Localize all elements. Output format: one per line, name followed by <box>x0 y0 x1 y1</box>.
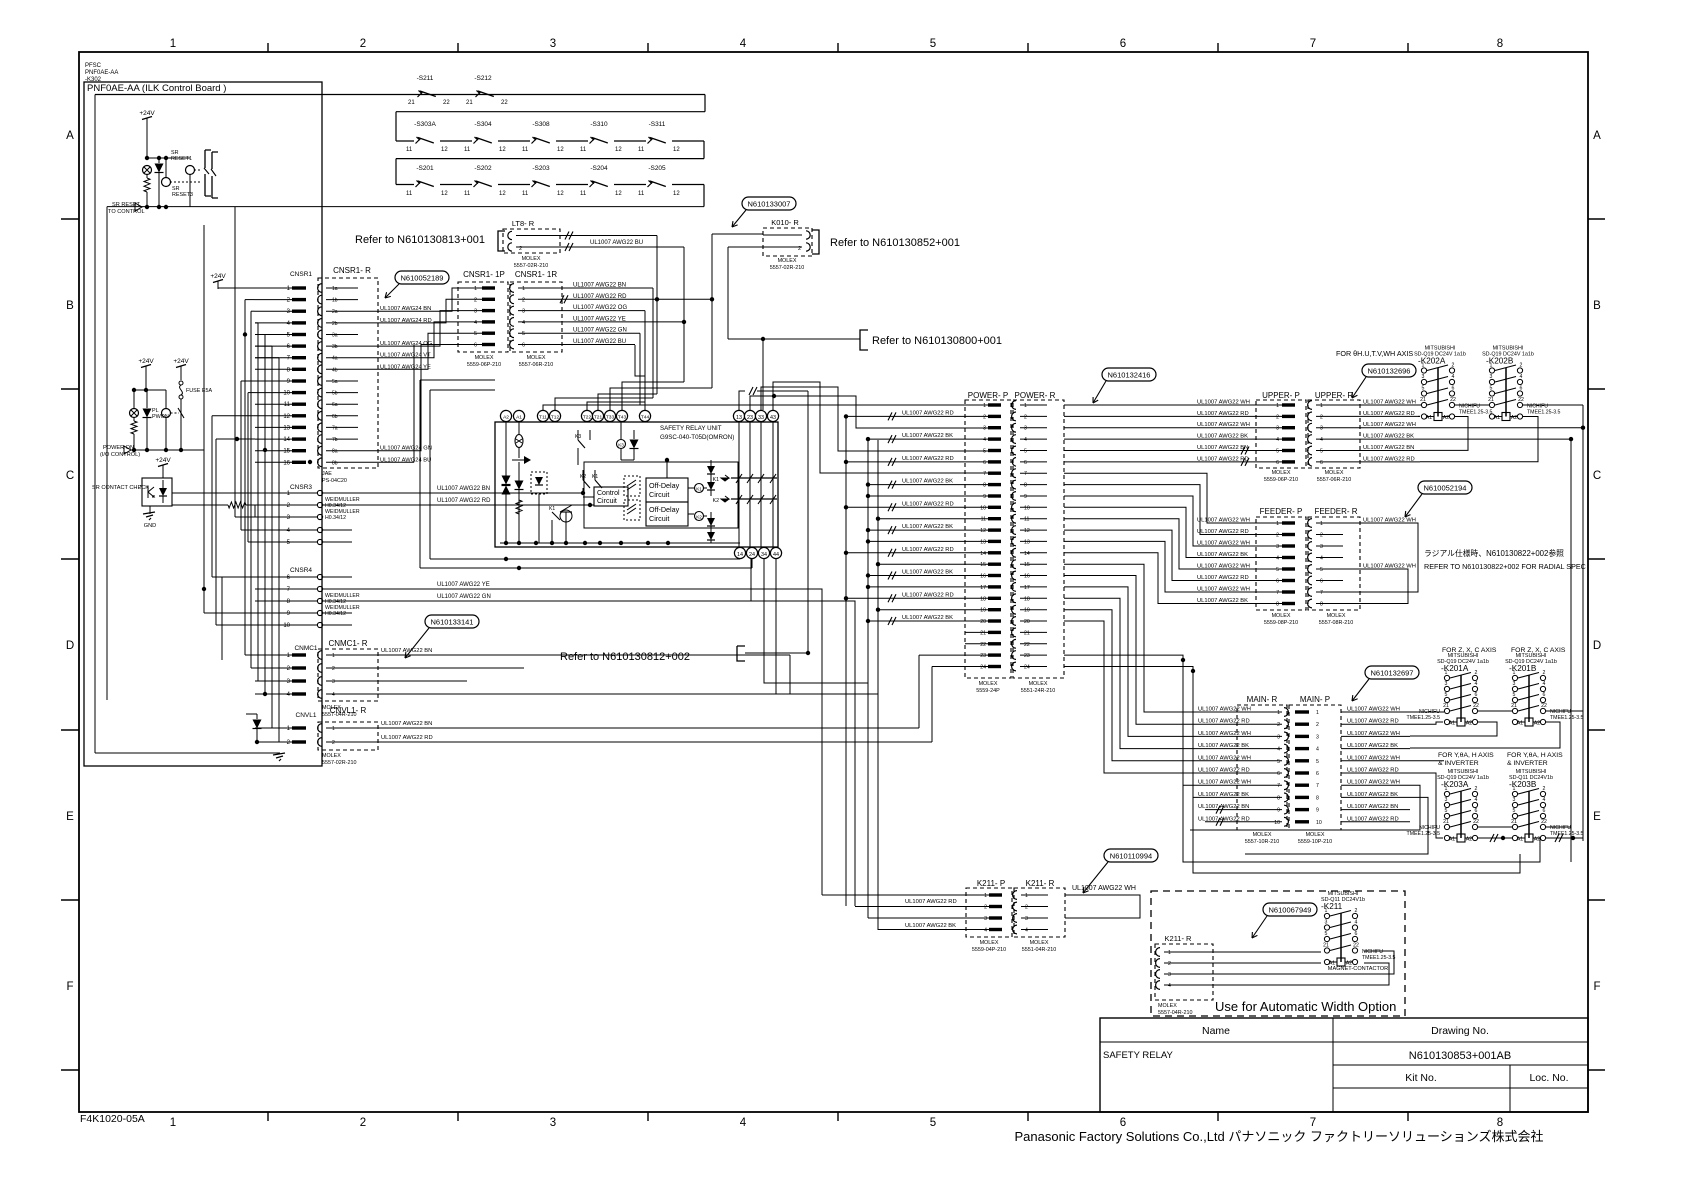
terminal 14 <box>734 547 745 558</box>
svg-text:Drawing No.: Drawing No. <box>1431 1025 1489 1037</box>
wire - row3 bottom return to board <box>107 206 704 208</box>
svg-text:2: 2 <box>1024 414 1027 420</box>
svg-text:14: 14 <box>1024 551 1030 557</box>
svg-text:2: 2 <box>1320 533 1323 539</box>
svg-text:4: 4 <box>1520 374 1523 380</box>
svg-text:1: 1 <box>1024 403 1027 409</box>
terminal T33 <box>604 410 615 421</box>
off-delay circuit 1 <box>646 478 688 502</box>
diode K3 <box>630 440 639 449</box>
wire POWER-P pin9 <box>868 495 988 497</box>
svg-text:12: 12 <box>673 147 680 153</box>
wire - interlock chain row 2 <box>395 112 397 141</box>
svg-text:10: 10 <box>1024 505 1030 511</box>
svg-text:Name: Name <box>1202 1025 1230 1037</box>
svg-text:11: 11 <box>580 147 587 153</box>
svg-text:44: 44 <box>773 552 779 558</box>
terminal A2 <box>500 410 511 421</box>
svg-text:-S202: -S202 <box>474 165 492 172</box>
wire POWER-P pin21 pin22 <box>965 631 988 633</box>
svg-text:UL1007 AWG22 WH: UL1007 AWG22 WH <box>1197 587 1250 593</box>
svg-text:Kit No.: Kit No. <box>1405 1072 1437 1084</box>
svg-text:+24V: +24V <box>155 457 171 464</box>
wire bottom nest <box>1183 785 1540 862</box>
wire bus left of POWER-P <box>845 417 847 906</box>
svg-text:MAIN- R: MAIN- R <box>1247 695 1278 704</box>
svg-text:PNF0AE-AA (ILK Control Board: PNF0AE-AA (ILK Control Board ) <box>87 83 226 94</box>
svg-text:UL1007 AWG22 WH: UL1007 AWG22 WH <box>1363 564 1416 570</box>
svg-text:5557-06R-210: 5557-06R-210 <box>1317 477 1351 483</box>
svg-text:-S203: -S203 <box>532 165 550 172</box>
wire POWER-P pin8 UL1007 AWG22 BK <box>868 484 988 486</box>
svg-text:A2: A2 <box>503 415 509 421</box>
svg-text:TMEE1.25-3.5: TMEE1.25-3.5 <box>1407 715 1441 721</box>
terminal 44 <box>770 547 781 558</box>
svg-text:1: 1 <box>522 286 525 292</box>
svg-text:4: 4 <box>1452 374 1455 380</box>
svg-text:UL1007 AWG22 WH: UL1007 AWG22 WH <box>1198 707 1251 713</box>
svg-text:-S303A: -S303A <box>414 121 436 128</box>
svg-text:11: 11 <box>406 147 413 153</box>
svg-text:5: 5 <box>930 38 936 50</box>
svg-text:-S211: -S211 <box>417 75 434 82</box>
terminal T21 <box>592 410 603 421</box>
svg-text:9: 9 <box>1024 494 1027 500</box>
svg-text:5559-06P-210: 5559-06P-210 <box>467 362 501 368</box>
svg-text:3: 3 <box>1277 734 1280 740</box>
svg-text:1: 1 <box>1316 710 1319 716</box>
wire POWER-R pins15-20 to MAIN-R stairs <box>1064 564 1282 712</box>
svg-text:UL1007 AWG22 WH: UL1007 AWG22 WH <box>1347 755 1400 761</box>
svg-text:4: 4 <box>1475 797 1478 803</box>
svg-text:6: 6 <box>983 460 986 466</box>
svg-text:FUSE E5A: FUSE E5A <box>186 388 212 394</box>
svg-text:SAFETY RELAY: SAFETY RELAY <box>1103 1050 1174 1061</box>
svg-text:3: 3 <box>1168 972 1171 978</box>
wire POWER-P pin16 UL1007 AWG22 BK <box>868 575 988 577</box>
svg-text:A2: A2 <box>1466 721 1472 727</box>
svg-text:CNSR3: CNSR3 <box>290 484 312 491</box>
svg-text:14: 14 <box>980 551 986 557</box>
svg-text:2: 2 <box>1276 414 1279 420</box>
svg-text:22: 22 <box>501 100 508 106</box>
svg-text:3: 3 <box>1276 426 1279 432</box>
svg-text:UL1007 AWG22 BU: UL1007 AWG22 BU <box>573 339 626 345</box>
svg-text:T22: T22 <box>583 415 592 421</box>
wire FEEDER-R pin5 loop <box>1343 569 1408 604</box>
svg-text:7: 7 <box>1310 38 1316 50</box>
svg-text:Circuit: Circuit <box>597 498 617 505</box>
terminal 13 <box>733 410 744 421</box>
svg-text:4: 4 <box>740 38 747 50</box>
svg-text:B: B <box>1593 300 1601 312</box>
svg-text:UL1007 AWG22 BK: UL1007 AWG22 BK <box>902 615 953 621</box>
svg-text:1: 1 <box>1320 521 1323 527</box>
svg-text:UPPER- R: UPPER- R <box>1315 391 1353 400</box>
balloon N610110994 <box>1104 849 1158 862</box>
svg-text:MOLEX: MOLEX <box>1272 470 1291 476</box>
svg-text:17: 17 <box>1024 585 1030 591</box>
svg-text:MOLEX: MOLEX <box>527 355 546 361</box>
svg-text:3: 3 <box>984 916 987 922</box>
svg-text:UL1007 AWG22 RD: UL1007 AWG22 RD <box>1363 456 1415 462</box>
svg-text:UL1007 AWG22 BU: UL1007 AWG22 BU <box>590 240 643 246</box>
svg-text:3: 3 <box>550 1117 556 1129</box>
svg-text:3a: 3a <box>332 333 338 339</box>
svg-text:5557-02R-210: 5557-02R-210 <box>770 265 804 271</box>
svg-text:MOLEX: MOLEX <box>522 256 541 262</box>
svg-text:4: 4 <box>1025 928 1028 934</box>
svg-text:N610133141: N610133141 <box>431 618 474 627</box>
svg-text:1: 1 <box>984 893 987 899</box>
wire - row3 switch line <box>396 184 704 186</box>
svg-text:4: 4 <box>522 320 525 326</box>
switch S203 <box>530 180 556 189</box>
svg-text:2: 2 <box>1320 414 1323 420</box>
svg-text:4: 4 <box>1024 437 1027 443</box>
svg-text:3: 3 <box>1422 374 1425 380</box>
switch S303A <box>414 137 440 146</box>
svg-text:6: 6 <box>1452 386 1455 392</box>
terminal A1 <box>513 410 524 421</box>
svg-text:N610132697: N610132697 <box>1371 669 1414 678</box>
svg-text:-S310: -S310 <box>590 121 608 128</box>
balloon N610052189 <box>395 271 449 284</box>
svg-text:5: 5 <box>1325 931 1328 937</box>
svg-text:6: 6 <box>1120 1117 1126 1129</box>
svg-text:8a: 8a <box>332 449 338 455</box>
svg-text:Off-Delay: Off-Delay <box>649 505 680 514</box>
svg-text:F4K1020-05A: F4K1020-05A <box>80 1113 145 1125</box>
svg-text:10: 10 <box>283 623 290 629</box>
relay K1 coil <box>695 484 704 493</box>
svg-text:4: 4 <box>1168 983 1171 989</box>
svg-text:4: 4 <box>1316 747 1319 753</box>
svg-text:15: 15 <box>980 562 986 568</box>
svg-text:MOLEX: MOLEX <box>1306 832 1325 838</box>
svg-text:ラジアル仕様時、N610130822+002参照: ラジアル仕様時、N610130822+002参照 <box>1424 548 1564 558</box>
svg-text:MOLEX: MOLEX <box>778 258 797 264</box>
svg-text:TMEE1.25-3.5: TMEE1.25-3.5 <box>1362 955 1396 961</box>
svg-text:& INVERTER: & INVERTER <box>1507 760 1548 767</box>
svg-text:-S212: -S212 <box>474 75 492 82</box>
svg-text:5551-04R-210: 5551-04R-210 <box>1022 947 1056 953</box>
svg-text:K010- R: K010- R <box>771 218 799 227</box>
svg-text:5: 5 <box>1276 449 1279 455</box>
svg-text:22: 22 <box>443 100 450 106</box>
svg-text:9: 9 <box>983 494 986 500</box>
svg-text:11: 11 <box>284 402 291 408</box>
svg-text:Refer to N610130852+001: Refer to N610130852+001 <box>830 237 960 249</box>
svg-text:RESET1: RESET1 <box>171 156 192 162</box>
svg-text:11: 11 <box>406 191 413 197</box>
svg-text:3: 3 <box>1445 797 1448 803</box>
switch S205 <box>646 180 672 189</box>
svg-text:5: 5 <box>983 449 986 455</box>
svg-text:6: 6 <box>1316 771 1319 777</box>
svg-text:9: 9 <box>1277 808 1280 814</box>
svg-text:CNSR1- R: CNSR1- R <box>333 266 371 275</box>
svg-text:2: 2 <box>522 297 525 303</box>
svg-text:Refer to N610130800+001: Refer to N610130800+001 <box>872 335 1002 347</box>
svg-text:K211- R: K211- R <box>1026 879 1055 888</box>
svg-text:UL1007 AWG22 BK: UL1007 AWG22 BK <box>1363 434 1414 440</box>
svg-text:Refer to N610130813+001: Refer to N610130813+001 <box>355 234 485 246</box>
svg-text:UL1007 AWG22 RD: UL1007 AWG22 RD <box>1347 768 1399 774</box>
svg-text:3: 3 <box>1320 544 1323 550</box>
svg-text:15: 15 <box>1024 562 1030 568</box>
wire POWER-P pin10 UL1007 AWG22 RD <box>846 506 988 508</box>
svg-text:11: 11 <box>464 147 471 153</box>
svg-text:CNVL1: CNVL1 <box>296 712 317 719</box>
svg-text:A2: A2 <box>1534 837 1540 843</box>
wire K202 rails <box>1420 404 1421 406</box>
svg-text:1: 1 <box>332 726 335 732</box>
svg-text:UL1007 AWG22 WH: UL1007 AWG22 WH <box>1198 755 1251 761</box>
svg-text:8: 8 <box>1277 795 1280 801</box>
svg-text:21: 21 <box>1420 397 1426 403</box>
svg-text:7: 7 <box>1276 590 1279 596</box>
diode pair K1 <box>707 466 715 474</box>
phototriac PhC1 <box>531 472 547 494</box>
svg-text:4: 4 <box>983 437 986 443</box>
svg-text:3: 3 <box>1276 544 1279 550</box>
terminal 34 <box>758 547 769 558</box>
svg-text:1: 1 <box>1445 786 1448 792</box>
svg-text:22: 22 <box>1450 397 1456 403</box>
svg-text:TMEE1.25-3.5: TMEE1.25-3.5 <box>1527 410 1561 416</box>
svg-text:5: 5 <box>1320 567 1323 573</box>
wire bundle CNSR1-1R to relay terminals <box>545 287 653 289</box>
wire K211-P feeds <box>822 894 989 896</box>
svg-text:21: 21 <box>1511 819 1517 825</box>
svg-text:H0.34/12: H0.34/12 <box>325 515 346 521</box>
svg-text:D: D <box>66 640 74 652</box>
svg-text:SAFETY RELAY UNIT: SAFETY RELAY UNIT <box>660 425 722 432</box>
svg-text:E: E <box>66 811 74 823</box>
svg-text:11: 11 <box>981 517 986 523</box>
border frame <box>79 52 1588 1112</box>
wire POWER-P pin17 <box>868 586 988 588</box>
svg-text:12: 12 <box>1024 528 1030 534</box>
svg-text:N610052189: N610052189 <box>401 274 444 283</box>
svg-text:UL1007 AWG22 BK: UL1007 AWG22 BK <box>902 433 953 439</box>
svg-text:5a: 5a <box>332 379 338 385</box>
svg-text:3: 3 <box>1445 681 1448 687</box>
svg-text:4b: 4b <box>332 367 338 373</box>
terminal T43 <box>616 410 627 421</box>
svg-text:UL1007 AWG22 BN: UL1007 AWG22 BN <box>1363 445 1414 451</box>
svg-text:1: 1 <box>1276 403 1279 409</box>
svg-text:+24V: +24V <box>173 358 189 365</box>
svg-text:MOLEX: MOLEX <box>1029 681 1048 687</box>
svg-text:21: 21 <box>408 100 415 106</box>
svg-text:2: 2 <box>1475 786 1478 792</box>
diode PWON <box>146 390 148 408</box>
svg-text:34: 34 <box>761 552 767 558</box>
svg-text:8: 8 <box>1276 602 1279 608</box>
svg-text:T33: T33 <box>606 415 615 421</box>
wire - board internal rails <box>94 95 96 754</box>
wire UPPER rows 3-4 to right rails <box>1420 427 1583 429</box>
svg-text:UL1007 AWG22 RD: UL1007 AWG22 RD <box>1198 719 1250 725</box>
svg-text:UL1007 AWG22 RD: UL1007 AWG22 RD <box>1197 456 1249 462</box>
dashed option box <box>1151 891 1405 1016</box>
svg-text:3: 3 <box>1513 797 1516 803</box>
svg-text:12: 12 <box>673 191 680 197</box>
svg-text:6b: 6b <box>332 414 338 420</box>
svg-text:UL1007 AWG22 WH: UL1007 AWG22 WH <box>1197 400 1250 406</box>
svg-text:UL1007 AWG22 WH: UL1007 AWG22 WH <box>1347 707 1400 713</box>
svg-text:K2: K2 <box>713 498 719 504</box>
resistor on check line <box>172 492 255 494</box>
svg-text:23: 23 <box>980 653 986 659</box>
terminal 33 <box>755 410 766 421</box>
svg-text:21: 21 <box>1511 703 1517 709</box>
svg-text:-S304: -S304 <box>474 121 492 128</box>
svg-text:11: 11 <box>522 191 529 197</box>
ground board <box>279 742 281 753</box>
wire - row1 return <box>704 95 706 112</box>
svg-text:2: 2 <box>983 414 986 420</box>
wire FEEDER-R pin1 loop <box>1343 523 1418 592</box>
svg-text:13: 13 <box>980 539 986 545</box>
svg-text:24: 24 <box>749 552 755 558</box>
svg-text:22: 22 <box>1518 397 1524 403</box>
wire bundle CNSR1-R to CNSR1-1P <box>378 288 480 311</box>
wire CNVL1-2 UL1007 AWG22 RD <box>378 741 932 743</box>
zener stack 1 <box>502 476 511 485</box>
svg-text:MOLEX: MOLEX <box>1030 940 1049 946</box>
svg-text:4: 4 <box>1475 681 1478 687</box>
balloon N610133007 <box>742 197 796 210</box>
svg-text:5: 5 <box>474 331 477 337</box>
wire POWER-R pin23 pin24 <box>1064 655 1282 785</box>
svg-text:UL1007 AWG22 BK: UL1007 AWG22 BK <box>1197 598 1248 604</box>
svg-text:24: 24 <box>1024 665 1030 671</box>
terminal T11 <box>537 410 548 421</box>
svg-text:4: 4 <box>474 320 477 326</box>
wire CNSR4-8 UL1007 AWG22 GN <box>323 600 751 602</box>
svg-text:5557-02R-210: 5557-02R-210 <box>514 263 548 269</box>
svg-text:K1: K1 <box>713 477 719 483</box>
svg-text:2: 2 <box>984 905 987 911</box>
svg-text:LT8- R: LT8- R <box>512 219 535 228</box>
svg-text:UL1007 AWG22 WH: UL1007 AWG22 WH <box>1197 541 1250 547</box>
svg-text:FOR θH.U,T.V,WH AXIS: FOR θH.U,T.V,WH AXIS <box>1336 349 1413 358</box>
svg-text:UL1007 AWG22 BK: UL1007 AWG22 BK <box>1347 743 1398 749</box>
svg-text:1: 1 <box>1276 521 1279 527</box>
svg-text:UL1007 AWG22 BN: UL1007 AWG22 BN <box>1347 804 1398 810</box>
svg-text:+24V: +24V <box>210 273 226 280</box>
text refer to N610130800+001 with bracket <box>860 330 868 350</box>
svg-text:5: 5 <box>1513 808 1516 814</box>
K3 relay coil <box>617 440 626 449</box>
wire POWER-P pin2 UL1007 AWG22 RD <box>846 415 988 417</box>
wire K010 pins <box>712 233 763 235</box>
resistor below LED <box>144 178 150 192</box>
svg-text:13: 13 <box>283 425 290 431</box>
svg-text:8b: 8b <box>332 460 338 466</box>
svg-text:22: 22 <box>1353 943 1359 949</box>
terminal 24 <box>746 547 757 558</box>
svg-text:4: 4 <box>740 1117 747 1129</box>
svg-text:3: 3 <box>1490 374 1493 380</box>
svg-text:UL1007 AWG22 WH: UL1007 AWG22 WH <box>1197 422 1250 428</box>
svg-text:-S311: -S311 <box>649 121 666 128</box>
terminal 23 <box>744 410 755 421</box>
svg-text:1: 1 <box>1025 893 1028 899</box>
svg-text:21: 21 <box>466 100 473 106</box>
svg-text:22: 22 <box>1541 703 1547 709</box>
svg-text:2: 2 <box>1543 670 1546 676</box>
wire POWER-P pin19 <box>878 609 988 611</box>
svg-text:UL1007 AWG22 RD: UL1007 AWG22 RD <box>1347 719 1399 725</box>
phototriac PhC2 <box>624 476 640 496</box>
svg-text:2b: 2b <box>332 321 338 327</box>
switch S304 <box>472 137 498 146</box>
svg-text:GND: GND <box>144 523 156 529</box>
svg-text:UL1007 AWG22 WH: UL1007 AWG22 WH <box>1197 564 1250 570</box>
svg-text:MAIN- P: MAIN- P <box>1300 695 1330 704</box>
svg-text:5: 5 <box>1422 386 1425 392</box>
svg-text:N610132696: N610132696 <box>1368 367 1411 376</box>
svg-text:4: 4 <box>1277 747 1280 753</box>
wire K201 rails <box>1410 711 1444 713</box>
wire bundle relay left loop <box>429 390 431 559</box>
svg-text:5: 5 <box>1445 692 1448 698</box>
svg-text:8: 8 <box>1320 602 1323 608</box>
svg-text:UL1007 AWG22 RD: UL1007 AWG22 RD <box>902 547 954 553</box>
svg-text:3: 3 <box>522 309 525 315</box>
svg-text:3: 3 <box>474 309 477 315</box>
svg-text:12: 12 <box>557 191 564 197</box>
svg-text:UL1007 AWG22 GN: UL1007 AWG22 GN <box>437 594 491 600</box>
svg-text:MOLEX: MOLEX <box>1325 470 1344 476</box>
svg-text:MOLEX: MOLEX <box>322 753 341 759</box>
LED SR reset <box>143 166 152 175</box>
svg-text:12: 12 <box>441 191 448 197</box>
wire POWER-P pin23 from CNVL1-1 <box>919 654 988 656</box>
svg-text:FEEDER- R: FEEDER- R <box>1314 507 1357 516</box>
svg-text:K211- P: K211- P <box>977 879 1005 888</box>
relay internal bottom bus <box>500 542 740 544</box>
svg-text:22: 22 <box>1473 703 1479 709</box>
svg-text:UL1007 AWG22 WH: UL1007 AWG22 WH <box>1197 518 1250 524</box>
balloon N610132416 <box>1102 368 1156 381</box>
svg-text:2: 2 <box>1355 908 1358 914</box>
svg-text:11: 11 <box>638 191 645 197</box>
svg-text:K211- R: K211- R <box>1165 934 1193 943</box>
svg-text:4: 4 <box>1320 437 1323 443</box>
svg-text:UL1007 AWG22 WH: UL1007 AWG22 WH <box>1347 731 1400 737</box>
diode pair K2 <box>707 518 715 526</box>
svg-text:FOR Y,θA, H AXIS: FOR Y,θA, H AXIS <box>1507 752 1563 759</box>
wire CNVL1-1 UL1007 AWG22 BN <box>378 727 919 729</box>
wire PWON bus <box>134 389 166 391</box>
balloon N610067949 <box>1263 903 1317 916</box>
svg-text:A1: A1 <box>516 415 522 421</box>
svg-text:7: 7 <box>1024 471 1027 477</box>
svg-text:5: 5 <box>522 331 525 337</box>
terminal 43 <box>767 410 778 421</box>
svg-text:1: 1 <box>1168 950 1171 956</box>
svg-text:22: 22 <box>980 642 986 648</box>
svg-text:UL1007 AWG22 RD: UL1007 AWG22 RD <box>1198 768 1250 774</box>
svg-text:Off-Delay: Off-Delay <box>649 481 680 490</box>
terminal T12 <box>549 410 560 421</box>
svg-text:21: 21 <box>1024 630 1030 636</box>
